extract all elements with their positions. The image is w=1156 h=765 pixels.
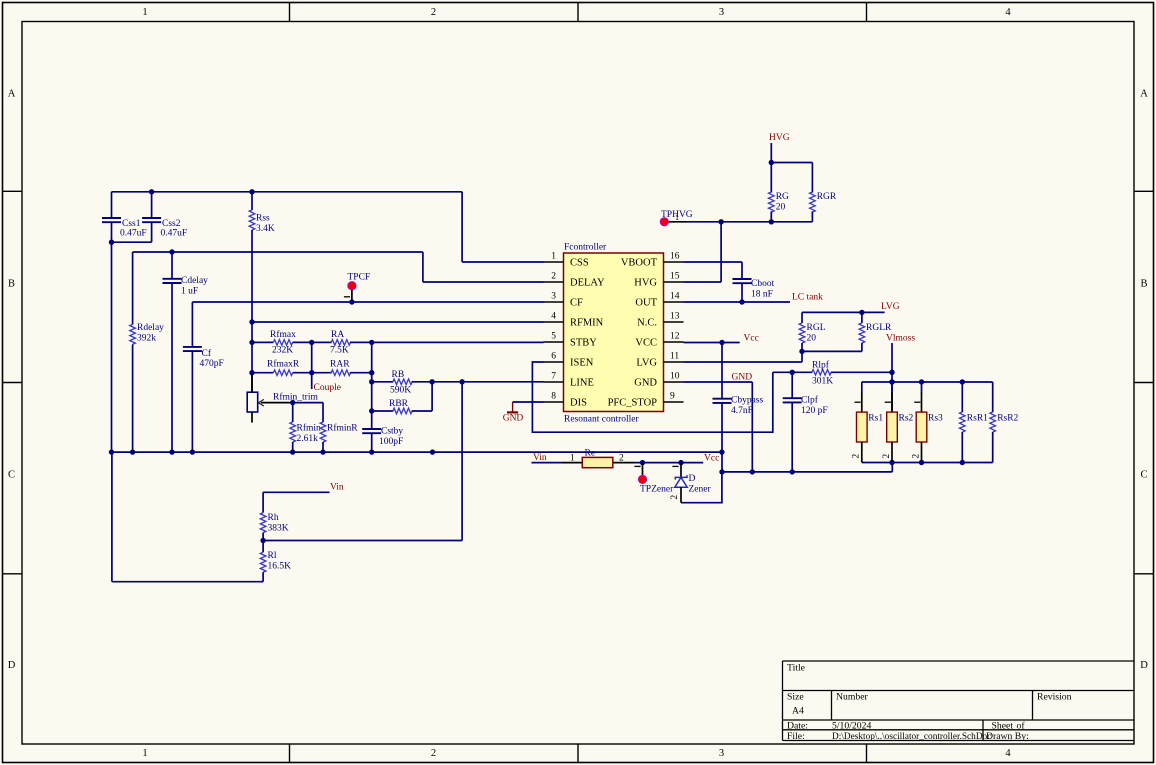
test point TPCF — [348, 282, 356, 290]
svg-text:4: 4 — [1005, 748, 1011, 759]
node TPZener junction — [640, 460, 645, 465]
svg-text:GND: GND — [503, 413, 524, 423]
svg-text:D: D — [1140, 660, 1148, 671]
svg-text:1 uF: 1 uF — [181, 287, 198, 297]
wire Cf top — [191, 302, 193, 347]
svg-text:Date:: Date: — [787, 720, 808, 731]
svg-text:Sheet: Sheet — [992, 720, 1014, 731]
svg-text:Css2: Css2 — [162, 219, 181, 229]
svg-text:2.61k: 2.61k — [297, 434, 319, 444]
pin 1 of TPZener rotated — [634, 465, 640, 467]
node Cboot bottom — [739, 299, 744, 304]
pin 4 RFMIN — [544, 321, 564, 323]
svg-text:0.47uF: 0.47uF — [161, 228, 188, 238]
resistor Rl 16.5K — [262, 541, 264, 553]
svg-text:Vcc: Vcc — [704, 453, 719, 463]
wire pot bottom stub — [251, 412, 253, 423]
node mid RfmaxR-RAR — [309, 370, 314, 375]
node RG bottom — [769, 219, 774, 224]
wire HVG stub — [770, 143, 772, 163]
svg-text:Vin: Vin — [330, 483, 344, 493]
svg-text:Cf: Cf — [202, 348, 212, 359]
pin 3 CF — [544, 301, 564, 303]
svg-text:RfmaxR: RfmaxR — [267, 359, 300, 370]
resistor RGLR — [861, 312, 863, 323]
node TPCF junction — [349, 299, 354, 304]
svg-text:DIS: DIS — [570, 398, 587, 409]
node rs3 top — [919, 379, 924, 384]
wire riser to RGL bottom — [801, 351, 803, 362]
wire RBR riser — [431, 382, 433, 411]
wire Rlpf row right — [831, 371, 892, 373]
wire top net to CSS — [112, 191, 463, 193]
node RB left — [369, 379, 374, 384]
svg-text:D: D — [8, 660, 16, 671]
resistor Rfmax 232K — [273, 340, 292, 346]
svg-text:3: 3 — [719, 748, 724, 759]
svg-text:7: 7 — [551, 372, 556, 382]
svg-text:RG: RG — [776, 192, 789, 202]
node Vcc pin12 junction — [719, 340, 724, 345]
resistor Rlpf 301K — [812, 370, 831, 376]
resistor Rh 383K — [262, 492, 264, 512]
svg-text:GND: GND — [634, 378, 657, 389]
node rsr1 bot — [960, 460, 965, 465]
svg-text:Rs3: Rs3 — [928, 414, 943, 424]
node RBR left — [369, 408, 374, 413]
svg-text:Cbypass: Cbypass — [731, 396, 764, 406]
wire Css2 bottom — [151, 222, 153, 242]
svg-text:120 pF: 120 pF — [801, 406, 828, 416]
svg-text:Rss: Rss — [256, 214, 270, 224]
svg-text:7.5K: 7.5K — [330, 346, 349, 356]
svg-text:RBR: RBR — [389, 399, 409, 409]
svg-text:1: 1 — [142, 748, 147, 759]
wire OUT pin 14 — [684, 301, 791, 303]
svg-text:4.7nF: 4.7nF — [731, 406, 753, 416]
svg-text:Rs2: Rs2 — [899, 414, 914, 424]
wire CF net to pin 3 — [192, 301, 543, 303]
wire LVG top row — [802, 311, 885, 313]
svg-text:12: 12 — [670, 332, 680, 342]
pin 9 PFC_STOP — [664, 401, 684, 403]
wire Rh bottom row — [263, 540, 462, 542]
node divider branch — [459, 379, 464, 384]
wire Rs bottom riser — [891, 463, 893, 472]
pot top pin — [251, 374, 253, 392]
svg-text:B: B — [1140, 279, 1147, 290]
node rail Cdelay — [169, 449, 174, 454]
node RBR riser top — [429, 379, 434, 384]
svg-text:Rfmin: Rfmin — [297, 423, 322, 434]
wire divider riser — [461, 382, 463, 541]
svg-text:VBOOT: VBOOT — [621, 258, 658, 269]
test point TPHVG — [660, 218, 668, 226]
svg-text:4: 4 — [551, 312, 556, 322]
pin 15 HVG — [664, 281, 684, 283]
resistor RfmaxR — [273, 370, 292, 376]
svg-text:470pF: 470pF — [200, 359, 224, 369]
svg-text:ISEN: ISEN — [570, 358, 594, 369]
svg-text:16: 16 — [670, 252, 680, 262]
node Rss top junction — [249, 189, 254, 194]
wire RGL-RGLR bottom row — [802, 350, 862, 352]
wire Css2 join — [112, 241, 152, 243]
svg-text:RGR: RGR — [817, 192, 837, 202]
resistor Rs1 — [861, 382, 863, 393]
pin 12 VCC — [664, 341, 684, 343]
resistor RsR1 — [961, 382, 963, 412]
wire riser to pin 2 — [422, 252, 424, 282]
svg-text:Number: Number — [836, 692, 869, 703]
svg-text:Title: Title — [787, 663, 805, 674]
node rs3 bot — [919, 460, 924, 465]
svg-text:301K: 301K — [812, 377, 833, 387]
resistor RAR — [331, 370, 350, 376]
svg-text:DELAY: DELAY — [570, 278, 605, 289]
svg-text:HVG: HVG — [769, 133, 790, 143]
svg-text:13: 13 — [670, 312, 680, 322]
capacitor Css2 — [142, 217, 161, 219]
pin 10 GND — [664, 381, 684, 383]
svg-text:5/10/2024: 5/10/2024 — [832, 720, 871, 731]
wire Cf bottom — [191, 351, 193, 452]
svg-text:Clpf: Clpf — [801, 395, 819, 406]
svg-text:Rs1: Rs1 — [868, 414, 883, 424]
wire zener anode loop to gnd row — [681, 472, 722, 503]
wire Cboot top — [741, 262, 743, 279]
svg-text:100pF: 100pF — [379, 437, 403, 447]
svg-text:VCC: VCC — [635, 338, 657, 349]
wire Css1 bottom to gnd rail — [111, 222, 113, 452]
node rail Cstby — [369, 449, 374, 454]
pin 1 of TPHVG — [669, 221, 687, 223]
capacitor Cboot 18 nF — [733, 278, 752, 280]
wire Rl bottom return — [112, 581, 263, 583]
resistor Rs2 — [891, 382, 893, 393]
wire main gnd rail — [112, 451, 722, 453]
svg-text:14: 14 — [670, 292, 680, 302]
pin 1 of Re — [563, 462, 583, 464]
resistor RB 590K — [393, 379, 412, 385]
svg-text:Vin: Vin — [533, 453, 547, 463]
node wiper-Rfmin junction — [290, 400, 295, 405]
svg-text:2: 2 — [882, 454, 892, 459]
pin 11 LVG — [664, 361, 684, 363]
ground power port at DIS — [512, 402, 514, 412]
svg-text:D:\Desktop\..\oscillator_contr: D:\Desktop\..\oscillator_controller.SchD… — [832, 732, 991, 742]
zener anode pin — [680, 487, 682, 503]
svg-text:Vlmoss: Vlmoss — [886, 333, 915, 343]
wire DELAY net horizontal — [133, 251, 423, 253]
node gnd row left — [719, 469, 724, 474]
wire RA right column — [371, 342, 373, 429]
pin 1 of D rotated — [672, 465, 678, 467]
wire Cboot bottom — [741, 283, 743, 302]
svg-text:Size: Size — [787, 692, 804, 703]
pin 14 OUT — [664, 301, 684, 303]
resistor RsR2 — [992, 382, 994, 412]
svg-text:Rl: Rl — [268, 551, 277, 561]
wire Vlmoss vertical — [891, 343, 893, 412]
svg-text:Revision: Revision — [1037, 692, 1072, 703]
wire VBOOT pin 16 — [684, 261, 743, 263]
node Cdelay top — [169, 249, 174, 254]
pin 16 VBOOT — [664, 261, 684, 263]
svg-text:9: 9 — [670, 392, 675, 402]
wire RBR row — [372, 410, 394, 412]
svg-text:Rlpf: Rlpf — [812, 360, 830, 371]
svg-text:Rh: Rh — [268, 513, 279, 523]
svg-text:Resonant controller: Resonant controller — [564, 415, 639, 425]
svg-text:Cboot: Cboot — [751, 279, 775, 289]
svg-text:Drawn By:: Drawn By: — [986, 731, 1029, 742]
svg-text:Re: Re — [585, 448, 596, 458]
node Rss bottom on RFMIN wire — [249, 319, 254, 324]
svg-text:Rfmin_trim: Rfmin_trim — [273, 392, 318, 403]
wire zener cathode — [680, 463, 682, 477]
wire Cdelay bottom — [171, 283, 173, 452]
zone tick marks — [289, 3, 291, 22]
svg-text:1: 1 — [570, 453, 575, 463]
svg-text:D: D — [689, 474, 696, 484]
svg-text:RfminR: RfminR — [327, 423, 358, 434]
wire Clpf top — [791, 372, 793, 398]
node rail Rdelay — [130, 449, 135, 454]
wire LVG pin 11 — [684, 361, 803, 363]
svg-text:File:: File: — [787, 731, 805, 742]
svg-text:3: 3 — [719, 7, 724, 18]
wire ISEN sense loop — [532, 362, 772, 432]
node rail segment join — [430, 449, 435, 454]
node rail Css1 — [109, 449, 114, 454]
resistor Rs3 — [921, 382, 923, 393]
node Css2 top junction — [149, 189, 154, 194]
svg-text:392k: 392k — [137, 334, 156, 344]
wire HVG riser — [720, 222, 722, 282]
wire Clpf bottom — [791, 402, 793, 472]
svg-text:TPCF: TPCF — [348, 273, 371, 283]
svg-text:4: 4 — [1005, 7, 1011, 18]
wire to CSS pin 1 — [462, 261, 543, 263]
resistor RG 20 — [770, 163, 772, 193]
node HVG riser — [718, 219, 723, 224]
wire LINE row left — [372, 381, 394, 383]
svg-text:C: C — [8, 470, 15, 481]
svg-text:GND: GND — [732, 373, 753, 383]
svg-text:B: B — [8, 279, 15, 290]
pin 1 CSS — [544, 261, 564, 263]
node rs2 bot — [889, 460, 894, 465]
svg-text:LC tank: LC tank — [792, 292, 823, 302]
wire STBY row — [252, 341, 273, 343]
node Css join — [109, 240, 114, 245]
wire Couple stub — [311, 342, 313, 389]
svg-text:RGL: RGL — [807, 323, 826, 333]
wire gnd drop — [751, 382, 753, 472]
pin 5 STBY — [544, 341, 564, 343]
wire gnd row — [722, 471, 892, 473]
svg-text:Fcontroller: Fcontroller — [564, 243, 607, 253]
svg-text:383K: 383K — [268, 524, 289, 534]
svg-text:RGLR: RGLR — [866, 323, 892, 333]
svg-text:STBY: STBY — [570, 338, 597, 349]
svg-text:HVG: HVG — [634, 278, 657, 289]
svg-text:2: 2 — [852, 454, 862, 459]
svg-text:16.5K: 16.5K — [268, 562, 292, 572]
svg-text:Vcc: Vcc — [744, 333, 759, 343]
svg-text:Rdelay: Rdelay — [137, 323, 164, 333]
svg-text:2: 2 — [431, 7, 436, 18]
zener cathode bar — [675, 475, 687, 479]
svg-text:232K: 232K — [272, 346, 293, 356]
pin 2 of Re — [613, 462, 633, 464]
svg-text:20: 20 — [807, 334, 817, 344]
node Clpf bottom — [790, 469, 795, 474]
wire Vin-Re row — [532, 462, 564, 464]
capacitor Cdelay 1 uF — [163, 278, 182, 280]
pin 8 DIS — [544, 401, 564, 403]
node Rfmax left — [249, 340, 254, 345]
resistor Rss 3.4K — [251, 192, 253, 210]
title block — [783, 661, 1135, 741]
svg-text:CF: CF — [570, 298, 583, 309]
svg-text:3: 3 — [551, 292, 556, 302]
svg-text:20: 20 — [776, 203, 786, 213]
svg-text:Couple: Couple — [314, 383, 341, 393]
node rail Cf — [190, 449, 195, 454]
wire riser to pin 1 — [461, 192, 463, 262]
wire Rs top rail — [862, 381, 993, 383]
node Clpf top — [790, 370, 795, 375]
node RA right — [369, 340, 374, 345]
wire VCC pin 12 — [684, 342, 740, 344]
svg-text:C: C — [1140, 470, 1147, 481]
wire RG top row — [771, 162, 812, 164]
svg-text:Rfmax: Rfmax — [270, 329, 296, 340]
node Rh-Rl junction — [260, 538, 265, 543]
wire LINE row right — [412, 381, 544, 383]
wire HVG bottom row — [687, 221, 813, 223]
resistor Rdelay 392k — [132, 252, 134, 324]
svg-text:0.47uF: 0.47uF — [120, 228, 147, 238]
pot wiper arrow — [259, 399, 264, 406]
svg-text:RFMIN: RFMIN — [570, 318, 604, 329]
svg-text:LVG: LVG — [881, 302, 900, 312]
node rs2 top — [889, 379, 894, 384]
svg-text:2: 2 — [911, 454, 921, 459]
svg-text:15: 15 — [670, 272, 680, 282]
wire Rlpf row left — [773, 371, 813, 373]
node rsr1 top — [960, 379, 965, 384]
pin 7 LINE — [544, 381, 564, 383]
svg-text:OUT: OUT — [635, 298, 657, 309]
wire Css2 top — [151, 192, 153, 218]
node Rlpf right — [889, 370, 894, 375]
resistor RGL 20 — [801, 312, 803, 323]
wire Rs bottom rail — [862, 462, 993, 464]
svg-text:18 nF: 18 nF — [751, 290, 773, 300]
svg-text:RB: RB — [392, 370, 405, 380]
svg-text:2: 2 — [670, 495, 680, 500]
wire Re to Vcc label — [633, 462, 703, 464]
wire to DELAY pin 2 — [423, 281, 544, 283]
pin 1 of TPCF (rotated) — [344, 296, 350, 298]
node HVG top — [769, 160, 774, 165]
pot wiper pin — [261, 402, 293, 404]
svg-text:RA: RA — [331, 330, 344, 340]
svg-text:590K: 590K — [390, 386, 411, 396]
wire wiper to RfminR — [293, 402, 323, 404]
node rail right end — [719, 449, 724, 454]
svg-text:8: 8 — [551, 392, 556, 402]
svg-text:5: 5 — [551, 332, 556, 342]
wire HVG pin 15 — [684, 281, 722, 283]
resistor RGR — [811, 163, 813, 193]
svg-text:CSS: CSS — [570, 258, 589, 269]
node rail Rfmin — [290, 449, 295, 454]
wire TPCF pin — [351, 290, 353, 302]
wire RfmaxR row — [252, 372, 273, 374]
capacitor Clpf 120 pF — [783, 397, 802, 399]
wire Cbypass bottom — [721, 403, 723, 472]
svg-text:LINE: LINE — [570, 378, 594, 389]
resistor Rfmin 2.61k — [292, 403, 294, 422]
wire TPZener pin — [642, 463, 644, 476]
wire DIS to gnd — [513, 401, 544, 403]
wire RFMIN net to pin 4 — [252, 321, 544, 323]
resistor RBR — [393, 408, 412, 414]
svg-text:1: 1 — [675, 213, 679, 222]
node RAR right — [369, 370, 374, 375]
wire Css1 top — [111, 192, 113, 218]
capacitor Css1 — [102, 217, 121, 219]
node Rfmax-RA mid — [309, 340, 314, 345]
capacitor Cbypass 4.7nF — [713, 398, 732, 400]
svg-text:LVG: LVG — [636, 358, 657, 369]
node rail RfminR — [320, 449, 325, 454]
pin 6 ISEN — [544, 361, 564, 363]
svg-text:Css1: Css1 — [122, 219, 141, 229]
svg-text:1: 1 — [142, 7, 147, 18]
svg-text:2: 2 — [431, 748, 436, 759]
node RGL bottom — [799, 349, 804, 354]
wire Cdelay top — [171, 252, 173, 279]
svg-text:3.4K: 3.4K — [256, 224, 275, 234]
capacitor Cstby 100pF — [362, 428, 381, 430]
node Zener junction — [678, 460, 683, 465]
zener anode triangle — [675, 477, 687, 487]
node Rs top rail center — [889, 379, 894, 384]
svg-text:A: A — [8, 89, 16, 100]
svg-text:A: A — [1140, 89, 1148, 100]
svg-text:N.C.: N.C. — [637, 318, 657, 329]
node RGLR top — [859, 310, 864, 315]
pin 13 N.C. — [664, 321, 684, 323]
wire GND pin 10 — [684, 381, 753, 383]
svg-text:RAR: RAR — [330, 360, 350, 370]
wire return riser — [111, 452, 113, 582]
svg-text:TPZener: TPZener — [640, 485, 674, 495]
svg-text:of: of — [1017, 720, 1026, 731]
svg-text:RsR2: RsR2 — [997, 414, 1018, 424]
node gnd drop — [750, 469, 755, 474]
svg-text:1: 1 — [551, 252, 556, 262]
svg-text:RsR1: RsR1 — [967, 414, 988, 424]
capacitor Cf 470pF — [183, 346, 202, 348]
svg-text:11: 11 — [670, 352, 679, 362]
resistor RfminR — [322, 403, 324, 422]
